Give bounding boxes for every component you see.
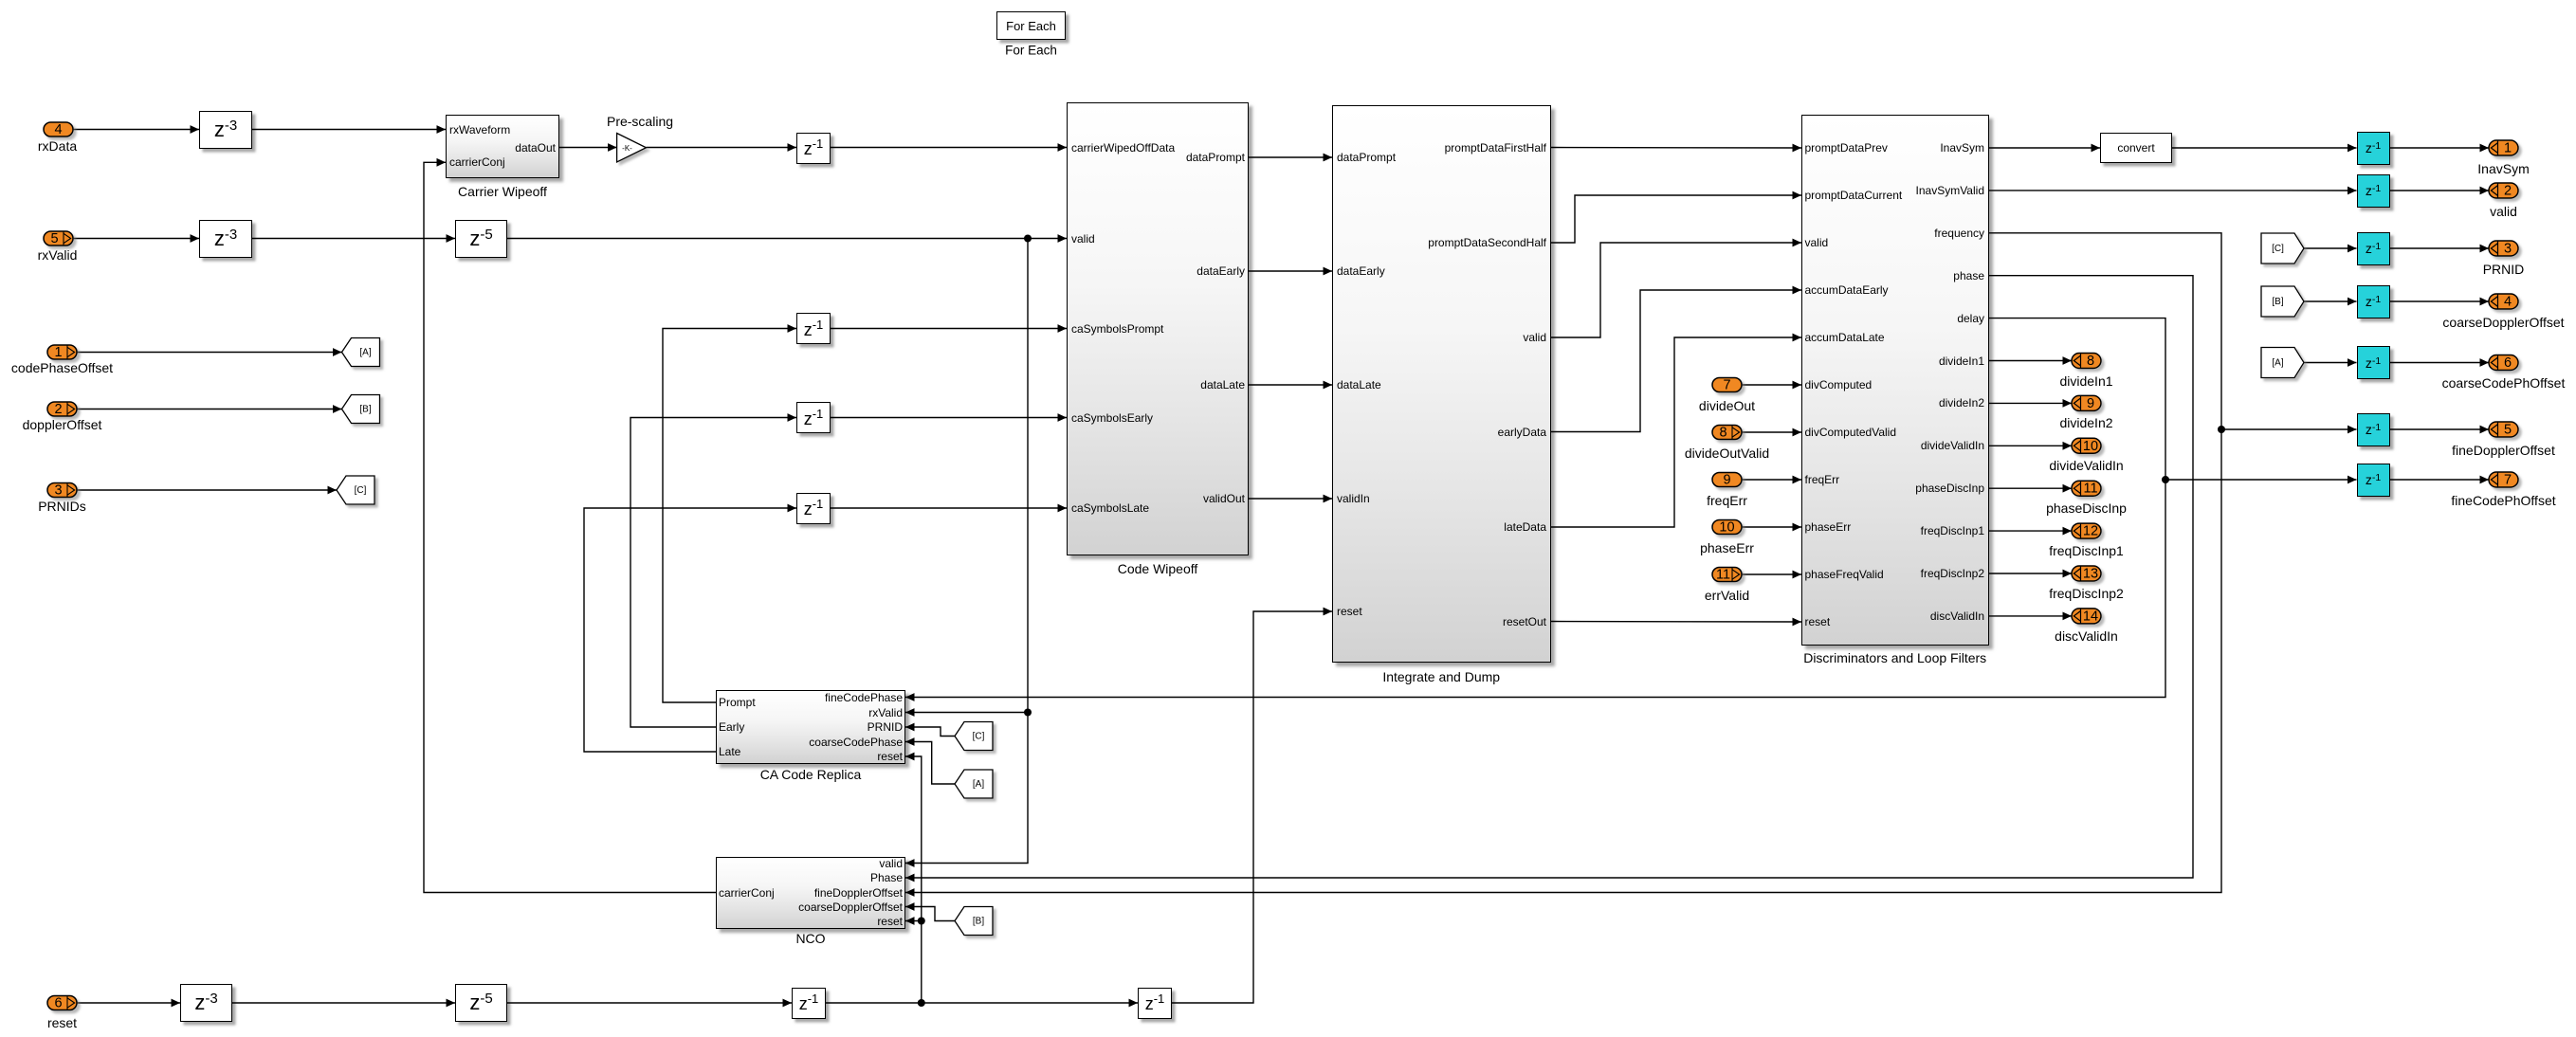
svg-text:3: 3	[54, 483, 62, 499]
svg-text:2: 2	[2504, 184, 2512, 199]
svg-text:6: 6	[54, 996, 62, 1011]
svg-text:9: 9	[2087, 396, 2094, 411]
svg-text:7: 7	[1723, 378, 1730, 393]
svg-text:14: 14	[2083, 609, 2098, 624]
svg-text:1: 1	[54, 345, 62, 360]
svg-text:11: 11	[1716, 568, 1730, 583]
svg-text:[A]: [A]	[2272, 358, 2283, 369]
svg-text:4: 4	[54, 122, 62, 137]
svg-text:8: 8	[2087, 354, 2094, 369]
svg-text:[B]: [B]	[359, 405, 371, 415]
svg-text:[C]: [C]	[973, 732, 985, 742]
svg-text:3: 3	[2504, 242, 2512, 257]
svg-text:4: 4	[2504, 295, 2512, 310]
svg-text:13: 13	[2083, 567, 2098, 582]
svg-text:[A]: [A]	[359, 348, 371, 358]
svg-text:6: 6	[2504, 355, 2512, 371]
svg-text:12: 12	[2083, 524, 2098, 539]
svg-text:9: 9	[1723, 473, 1730, 488]
svg-text:[C]: [C]	[2272, 244, 2284, 254]
svg-text:[B]: [B]	[973, 917, 984, 927]
svg-text:1: 1	[2504, 141, 2512, 156]
svg-text:10: 10	[2083, 439, 2098, 454]
svg-text:[B]: [B]	[2272, 297, 2283, 307]
svg-text:-K-: -K-	[622, 144, 632, 153]
svg-text:11: 11	[2083, 482, 2097, 497]
svg-text:7: 7	[2504, 473, 2512, 488]
svg-text:2: 2	[54, 402, 62, 417]
svg-text:[C]: [C]	[355, 485, 367, 496]
svg-text:8: 8	[1719, 426, 1726, 441]
svg-text:5: 5	[50, 231, 58, 246]
svg-text:5: 5	[2504, 423, 2512, 438]
svg-text:10: 10	[1719, 520, 1734, 536]
svg-text:[A]: [A]	[973, 779, 984, 790]
